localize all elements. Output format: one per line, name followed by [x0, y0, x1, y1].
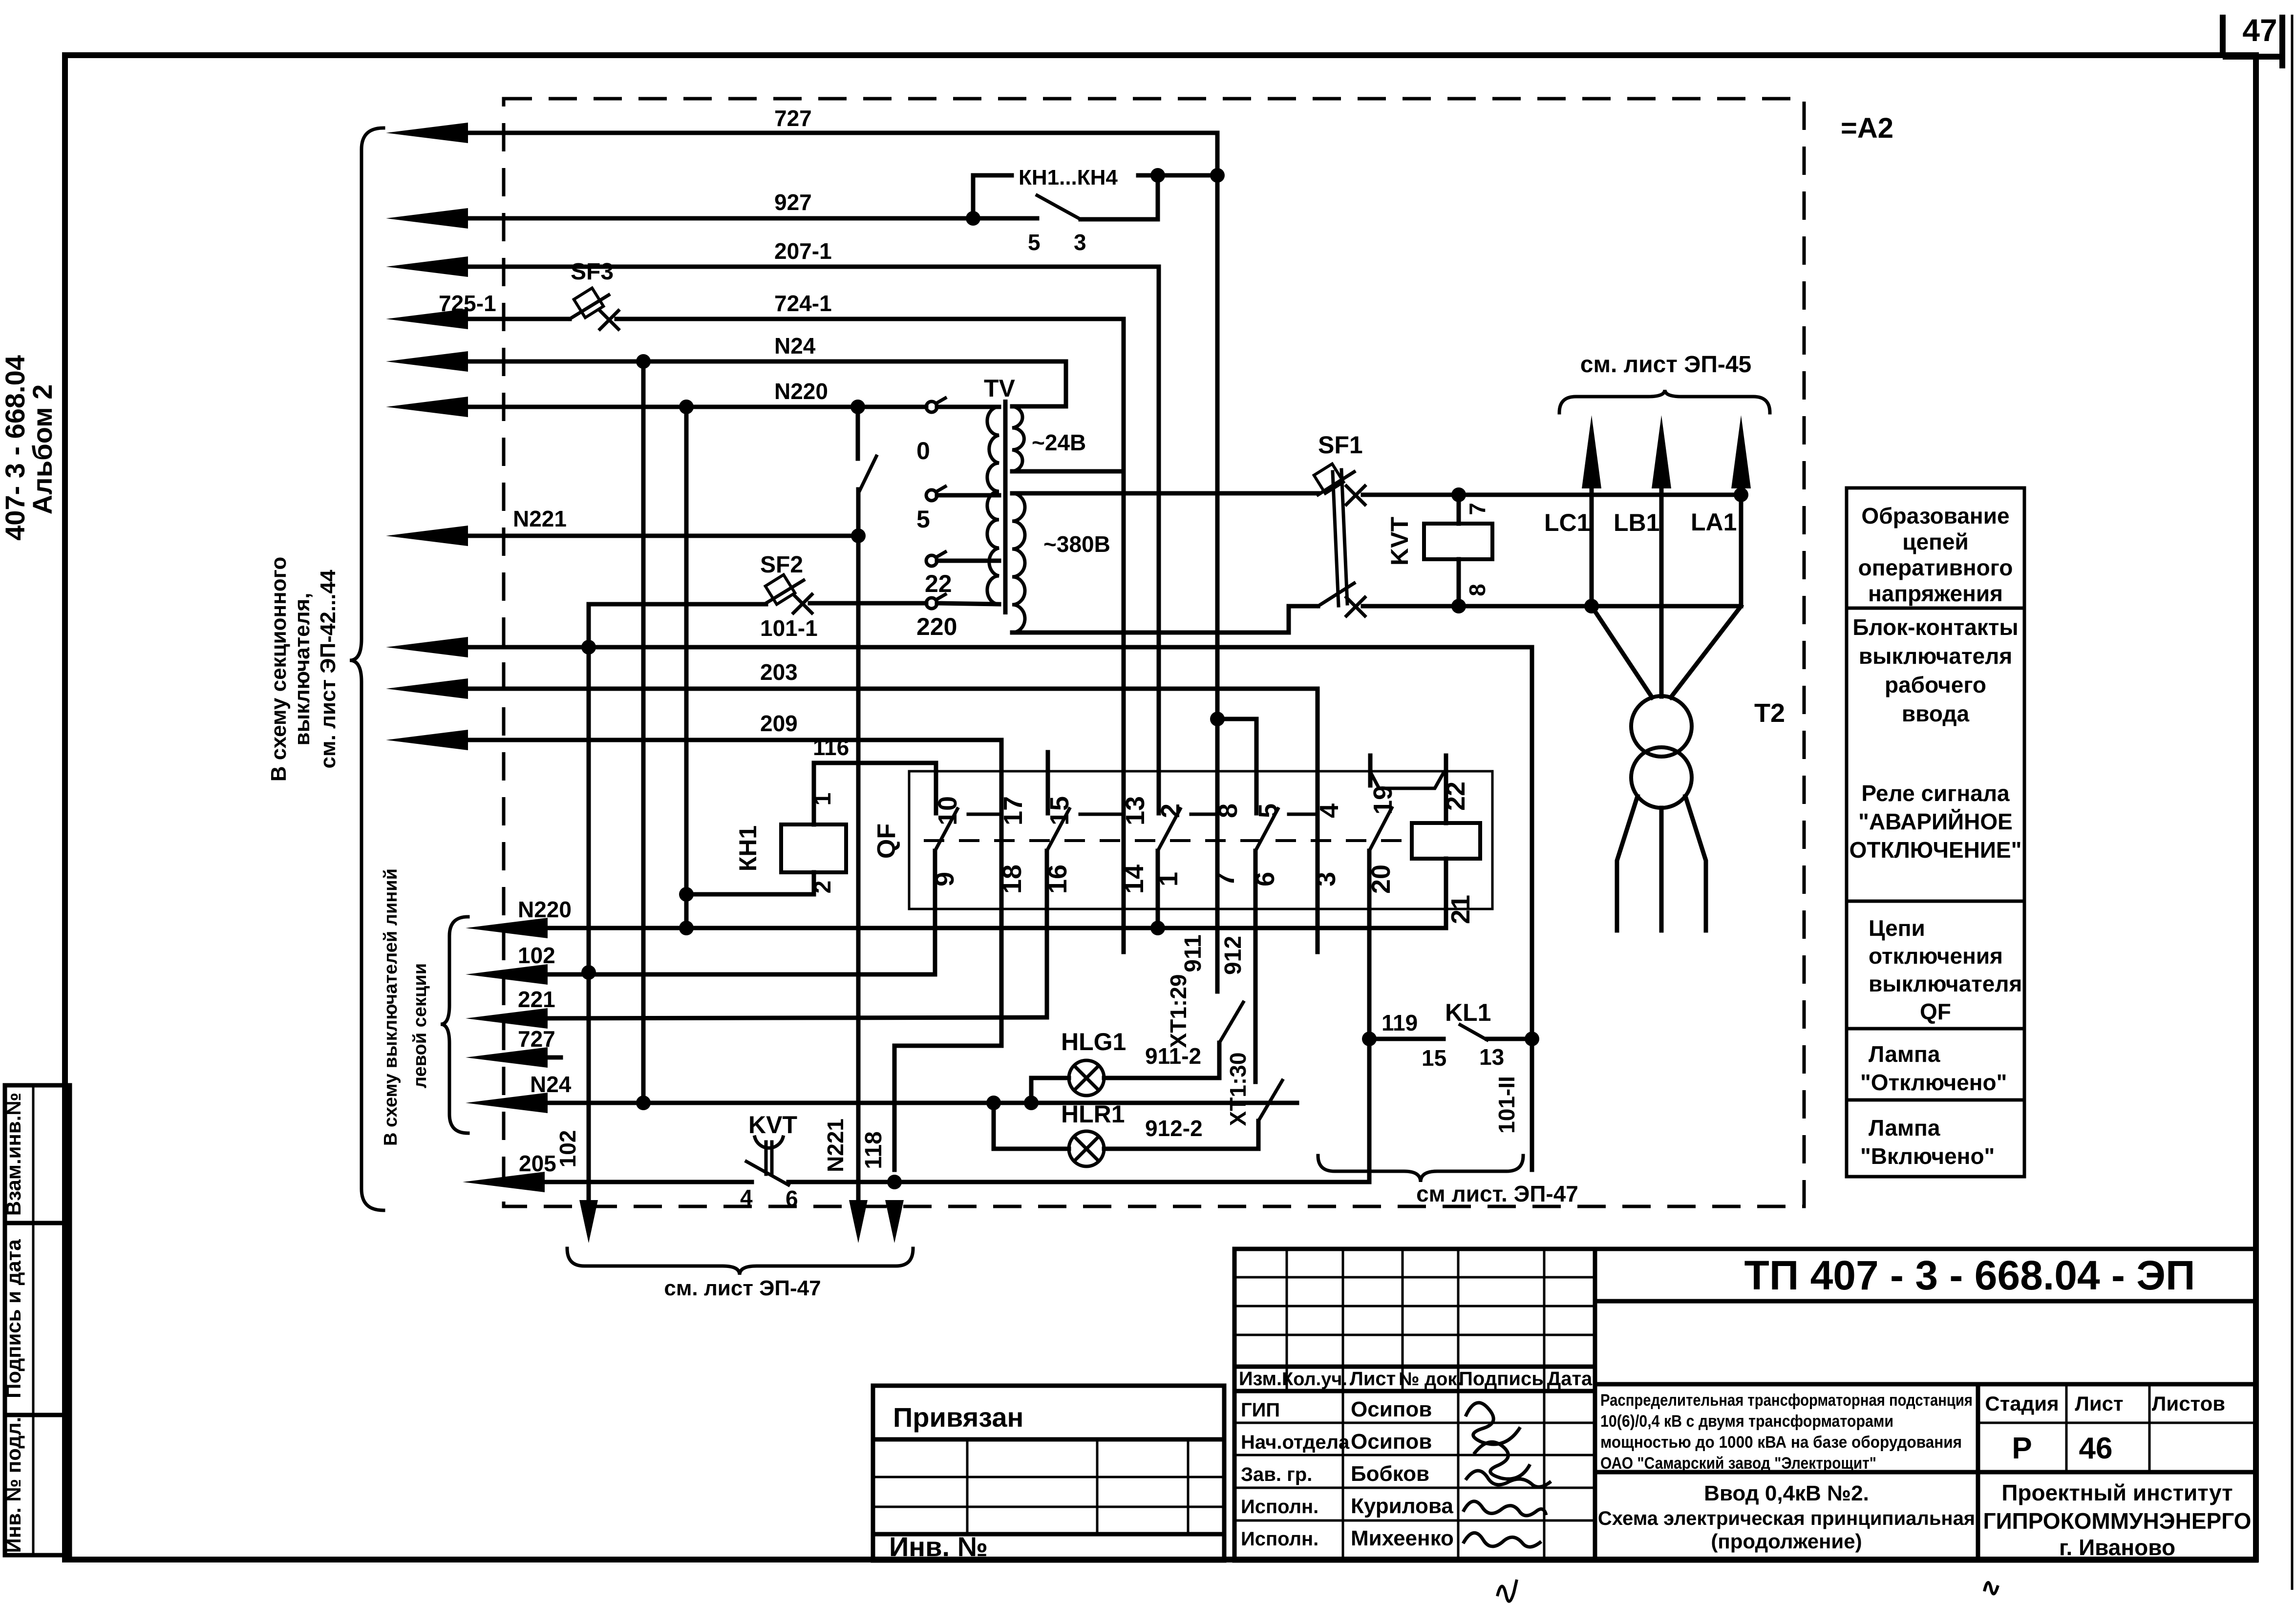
pin 20 wire down to KVT contact wire — [1367, 851, 1372, 1182]
svg-text:0: 0 — [916, 437, 930, 464]
brace left inner (to line breakers scheme) — [441, 917, 468, 1133]
svg-text:выключателя: выключателя — [1859, 643, 2012, 669]
TV secondary ~24B — [1012, 406, 1024, 471]
tap 0 — [926, 401, 937, 412]
svg-text:рабочего: рабочего — [1885, 672, 1986, 697]
transformer T2 — [1631, 696, 1692, 757]
svg-text:205: 205 — [519, 1151, 556, 1176]
svg-text:Реле сигнала: Реле сигнала — [1861, 781, 2010, 806]
svg-text:Дата: Дата — [1547, 1368, 1593, 1390]
tap 5 — [926, 490, 937, 501]
breaker aux block QF — [909, 771, 1492, 909]
svg-text:КН1: КН1 — [734, 825, 762, 871]
svg-text:Распределительная трансформато: Распределительная трансформаторная подст… — [1600, 1391, 1973, 1410]
TV core — [1003, 400, 1008, 614]
wire: SF2 feeder from 101-1 — [587, 604, 591, 647]
svg-text:Привязан: Привязан — [893, 1402, 1023, 1433]
note box: Цепи отключения выключателя QF — [1847, 901, 2024, 1029]
svg-text:118: 118 — [861, 1131, 887, 1169]
svg-text:Михеенко: Михеенко — [1351, 1526, 1454, 1550]
QF contact 10/9 — [934, 791, 938, 813]
~24B leads — [1012, 361, 1066, 406]
svg-text:Лист: Лист — [2075, 1392, 2123, 1415]
wire: 102 feeder vertical (down arrow 102) — [587, 607, 591, 1203]
svg-text:В схему выключателей линий: В схему выключателей линий — [381, 868, 401, 1146]
svg-text:Исполн.: Исполн. — [1241, 1496, 1318, 1518]
tap 220 — [926, 598, 937, 609]
svg-text:"Включено": "Включено" — [1860, 1143, 1995, 1169]
svg-text:22: 22 — [1441, 781, 1470, 811]
svg-text:TV: TV — [984, 375, 1016, 402]
svg-text:8: 8 — [1465, 584, 1490, 596]
svg-text:ГИП: ГИП — [1241, 1399, 1280, 1421]
svg-text:5: 5 — [916, 506, 930, 533]
svg-text:"Отключено": "Отключено" — [1860, 1070, 2007, 1095]
svg-text:21: 21 — [1446, 895, 1475, 924]
svg-text:KL1: KL1 — [1445, 999, 1491, 1026]
svg-text:407- 3 - 668.04: 407- 3 - 668.04 — [0, 355, 30, 541]
svg-text:N24: N24 — [530, 1072, 572, 1097]
svg-text:13: 13 — [1479, 1044, 1504, 1070]
svg-text:2: 2 — [810, 881, 836, 894]
svg-text:14: 14 — [1120, 865, 1149, 894]
svg-text:Подпись: Подпись — [1459, 1368, 1544, 1390]
svg-text:101-II: 101-II — [1494, 1076, 1519, 1134]
wire 102 to pin 9 — [933, 851, 937, 974]
svg-text:116: 116 — [813, 735, 849, 760]
svg-text:(продолжение): (продолжение) — [1711, 1530, 1862, 1553]
QF contact 19/20 with plug link — [1368, 756, 1373, 785]
svg-text:T2: T2 — [1754, 698, 1785, 728]
svg-text:~380В: ~380В — [1043, 531, 1110, 557]
svg-text:выключателя: выключателя — [1869, 971, 2022, 996]
wire 205 with KVT contact — [463, 1172, 545, 1192]
signatures — [1466, 1403, 1530, 1479]
svg-text:209: 209 — [760, 711, 798, 736]
svg-text:911: 911 — [1180, 934, 1206, 972]
wire N221 — [386, 526, 468, 546]
svg-text:46: 46 — [2079, 1432, 2113, 1465]
svg-text:N221: N221 — [823, 1119, 848, 1172]
svg-text:HLR1: HLR1 — [1061, 1100, 1125, 1128]
svg-text:724-1: 724-1 — [774, 291, 832, 316]
TV secondary ~380B — [1012, 493, 1025, 633]
svg-text:левой секции: левой секции — [410, 963, 430, 1088]
svg-text:Курилова: Курилова — [1351, 1494, 1453, 1518]
svg-text:Р: Р — [2012, 1432, 2032, 1465]
svg-text:7: 7 — [1465, 503, 1490, 515]
wire LA1 — [1731, 415, 1751, 488]
svg-text:102: 102 — [518, 943, 555, 968]
wire: N220 branch vertical to КН1 coil — [684, 407, 689, 928]
svg-text:6: 6 — [786, 1186, 798, 1211]
svg-text:N221: N221 — [513, 506, 567, 531]
svg-text:N220: N220 — [774, 379, 828, 404]
svg-text:912: 912 — [1220, 936, 1246, 975]
QF contact 15/16 — [1046, 791, 1050, 813]
brace см. лист ЭП-47 (bottom) — [567, 1248, 913, 1275]
svg-text:912-2: 912-2 — [1145, 1116, 1203, 1141]
QF pass wire 13/14 (from 724-1) — [1122, 319, 1126, 952]
wire N220 lower — [466, 918, 548, 938]
svg-text:15: 15 — [1422, 1045, 1446, 1071]
svg-text:Схема электрическая принципиал: Схема электрическая принципиальная — [1598, 1508, 1975, 1529]
svg-text:"АВАРИЙНОЕ: "АВАРИЙНОЕ — [1858, 809, 2013, 834]
wire 727 lower stub — [466, 1047, 548, 1068]
svg-text:~24В: ~24В — [1032, 430, 1086, 455]
svg-text:10(6)/0,4 кВ с двумя трансформ: 10(6)/0,4 кВ с двумя трансформаторами — [1600, 1412, 1893, 1431]
wire 927 — [386, 208, 468, 229]
svg-text:см. лист ЭП-47: см. лист ЭП-47 — [664, 1276, 821, 1300]
TV primary winding — [987, 407, 999, 604]
svg-text:Подпись и дата: Подпись и дата — [2, 1239, 25, 1398]
wire 221 to pin 16 — [1045, 851, 1049, 1017]
svg-text:119: 119 — [1382, 1010, 1418, 1035]
contact on N220/N221 riser — [856, 407, 860, 459]
wire 101-1 — [386, 637, 468, 657]
svg-text:см. лист ЭП-42...44: см. лист ЭП-42...44 — [316, 570, 340, 768]
svg-text:Лист: Лист — [1350, 1368, 1396, 1390]
pin 7 — [1457, 495, 1461, 524]
svg-text:19: 19 — [1368, 785, 1398, 815]
svg-text:мощностью до 1000 кВА на базе: мощностью до 1000 кВА на базе оборудован… — [1600, 1433, 1962, 1452]
QF pass wire 4/3 (from 203) — [1316, 689, 1320, 952]
svg-text:102: 102 — [555, 1130, 580, 1168]
pin 8 — [1457, 559, 1461, 606]
QF pass wire 17/18 — [894, 740, 1001, 1170]
svg-text:Нач.отдела: Нач.отдела — [1241, 1432, 1350, 1453]
svg-text:927: 927 — [774, 190, 812, 215]
svg-text:XT1:29: XT1:29 — [1166, 974, 1191, 1048]
left margin stamp table — [5, 1085, 70, 1555]
svg-text:Изм.: Изм. — [1239, 1368, 1282, 1390]
node: branch to QF pin 5 — [1210, 712, 1225, 726]
svg-text:Взам.инв.№: Взам.инв.№ — [2, 1093, 25, 1216]
T2 feeder diagonals — [1592, 606, 1652, 697]
svg-text:5: 5 — [1028, 230, 1041, 255]
QF contact 5/6 — [1254, 791, 1259, 813]
T2 secondary leads — [1617, 796, 1637, 930]
svg-text:Бобков: Бобков — [1351, 1462, 1429, 1486]
svg-text:220: 220 — [916, 613, 957, 640]
svg-text:KVT: KVT — [1386, 517, 1413, 566]
wire: N24 tie vertical — [641, 361, 646, 1103]
svg-text:203: 203 — [760, 659, 798, 685]
dashed enclosure box =A2 — [504, 99, 1804, 1206]
svg-text:3: 3 — [1312, 872, 1341, 886]
svg-text:В схему секционного: В схему секционного — [267, 557, 291, 781]
svg-text:см. лист ЭП-45: см. лист ЭП-45 — [1580, 352, 1751, 378]
svg-text:QF: QF — [1920, 999, 1951, 1024]
svg-text:5: 5 — [1254, 803, 1283, 818]
note box: Блок-контакты выключателя / Реле сигнала — [1847, 608, 2024, 901]
svg-text:Лампа: Лампа — [1869, 1115, 1940, 1140]
svg-text:17: 17 — [999, 796, 1028, 825]
SF1 linkage bar — [1333, 472, 1339, 606]
brace left outer (to section breaker scheme) — [350, 128, 383, 1210]
QF mechanism dashed line — [924, 839, 1410, 842]
title block — [1234, 1249, 1595, 1561]
svg-text:47: 47 — [2242, 13, 2277, 48]
svg-text:207-1: 207-1 — [774, 238, 832, 264]
svg-text:выключателя,: выключателя, — [290, 593, 314, 746]
svg-text:8: 8 — [1213, 803, 1243, 818]
wire 118 down arrow — [885, 1200, 904, 1243]
svg-text:1: 1 — [810, 793, 836, 806]
svg-text:Лампа: Лампа — [1869, 1041, 1940, 1067]
svg-text:7: 7 — [1211, 872, 1240, 886]
QF contact 2/1 — [1157, 791, 1161, 813]
svg-text:Листов: Листов — [2152, 1392, 2225, 1415]
svg-text:QF: QF — [872, 823, 901, 859]
QF closing coil 22/21 — [1412, 823, 1480, 859]
svg-text:Альбом 2: Альбом 2 — [27, 384, 58, 515]
svg-text:ОТКЛЮЧЕНИЕ": ОТКЛЮЧЕНИЕ" — [1850, 837, 2022, 863]
wire N24 top — [386, 351, 468, 372]
wire N24 lower — [466, 1093, 548, 1113]
svg-text:№ док.: № док. — [1399, 1369, 1462, 1390]
svg-text:Зав. гр.: Зав. гр. — [1241, 1464, 1312, 1485]
wire 912 from pin 6 — [1254, 851, 1258, 1082]
svg-text:Стадия: Стадия — [1985, 1392, 2059, 1415]
note box: Лампа Включено — [1847, 1100, 2024, 1177]
svg-text:N220: N220 — [518, 897, 572, 922]
svg-text:SF2: SF2 — [760, 552, 803, 578]
svg-text:Цепи: Цепи — [1869, 915, 1925, 941]
svg-text:HLG1: HLG1 — [1061, 1028, 1126, 1055]
wire LC1 — [1582, 415, 1601, 488]
note box: Образование цепей оперативного напряжения — [1847, 488, 2024, 608]
wire 203 — [386, 678, 468, 699]
svg-text:см лист. ЭП-47: см лист. ЭП-47 — [1416, 1181, 1578, 1206]
wire 119 — [1369, 1037, 1444, 1041]
wire 725-1 / 724-1 with breaker SF3 — [386, 309, 468, 329]
svg-text:15: 15 — [1045, 796, 1074, 825]
svg-text:цепей: цепей — [1902, 529, 1969, 554]
svg-text:221: 221 — [518, 987, 555, 1012]
svg-text:Блок-контакты: Блок-контакты — [1852, 614, 2018, 640]
svg-text:SF3: SF3 — [571, 259, 614, 285]
svg-text:725-1: 725-1 — [439, 291, 496, 316]
wire 101-II — [1530, 647, 1534, 1170]
svg-text:XT1:30: XT1:30 — [1225, 1053, 1251, 1126]
tap 22 — [926, 555, 937, 566]
svg-text:ТП 407 - 3 - 668.04 - ЭП: ТП 407 - 3 - 668.04 - ЭП — [1744, 1252, 2195, 1298]
svg-text:22: 22 — [925, 570, 952, 597]
svg-text:=A2: =A2 — [1841, 112, 1893, 144]
wire 209 — [386, 730, 468, 750]
note box: Лампа Отключено — [1847, 1029, 2024, 1100]
wire 727 — [386, 123, 468, 143]
svg-text:SF1: SF1 — [1318, 431, 1363, 459]
wire LB1 — [1652, 415, 1671, 488]
stray pen marks — [1497, 1580, 1517, 1602]
svg-text:101-1: 101-1 — [760, 615, 818, 641]
svg-text:LB1: LB1 — [1614, 509, 1659, 536]
svg-text:KVT: KVT — [748, 1111, 797, 1139]
svg-text:727: 727 — [518, 1026, 555, 1052]
svg-text:г. Иваново: г. Иваново — [2059, 1535, 2175, 1560]
svg-text:4: 4 — [740, 1185, 753, 1210]
svg-text:Осипов: Осипов — [1351, 1430, 1432, 1454]
brace to ЭП-45 — [1559, 390, 1770, 413]
svg-text:3: 3 — [1074, 230, 1086, 255]
svg-text:Ввод 0,4кВ №2.: Ввод 0,4кВ №2. — [1704, 1481, 1869, 1505]
brace around 101-II — [1318, 1156, 1523, 1182]
svg-text:оперативного: оперативного — [1858, 555, 2013, 580]
wire 116 (КН1 pin1 to QF pin10) — [814, 763, 936, 824]
svg-text:Инв. № подл.: Инв. № подл. — [2, 1417, 25, 1553]
sheet number box 47 — [2220, 15, 2226, 55]
svg-text:Исполн.: Исполн. — [1241, 1528, 1318, 1550]
pin 1 to N220 — [1156, 851, 1160, 928]
scan edge line right — [2291, 15, 2294, 1590]
svg-text:LA1: LA1 — [1691, 508, 1737, 536]
~380B leads to SF1 — [1012, 491, 1318, 496]
svg-text:N24: N24 — [774, 333, 816, 359]
svg-text:Проектный институт: Проектный институт — [2001, 1480, 2232, 1505]
svg-text:LC1: LC1 — [1544, 509, 1590, 536]
svg-text:КН1...КН4: КН1...КН4 — [1019, 166, 1118, 190]
svg-text:18: 18 — [998, 865, 1027, 894]
svg-text:727: 727 — [774, 106, 812, 131]
svg-text:Осипов: Осипов — [1351, 1397, 1432, 1421]
svg-text:напряжения: напряжения — [1868, 581, 2003, 606]
svg-text:ОАО "Самарский завод "Электрощ: ОАО "Самарский завод "Электрощит" — [1600, 1454, 1876, 1473]
wire 207-1 — [386, 256, 468, 277]
svg-text:4: 4 — [1315, 803, 1344, 818]
svg-text:ГИПРОКОММУНЭНЕРГО: ГИПРОКОММУНЭНЕРГО — [1983, 1508, 2252, 1534]
КН1 pin 2 wire — [686, 872, 814, 894]
svg-text:10: 10 — [933, 796, 962, 825]
svg-text:2: 2 — [1156, 803, 1185, 818]
svg-text:Образование: Образование — [1861, 503, 2009, 528]
svg-text:Кол.уч.: Кол.уч. — [1282, 1369, 1347, 1390]
wire N220 top — [386, 397, 468, 417]
svg-text:ввода: ввода — [1902, 701, 1970, 726]
svg-text:отключения: отключения — [1869, 943, 2003, 969]
svg-text:13: 13 — [1121, 796, 1150, 825]
svg-text:Инв. №: Инв. № — [889, 1531, 988, 1562]
